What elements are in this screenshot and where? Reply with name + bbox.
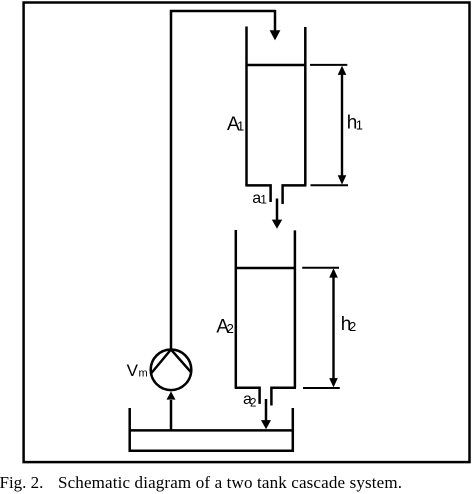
tank 1 water level line xyxy=(247,64,306,67)
arrowhead: a2 flow into reservoir xyxy=(261,420,271,429)
wire: inlet drop into tank 1 xyxy=(274,10,277,31)
svg-text:V: V xyxy=(127,361,139,380)
tank 1 bottom right with outlet stub xyxy=(283,185,307,204)
reservoir water level line xyxy=(130,429,293,432)
reservoir tank walls xyxy=(130,408,293,451)
svg-text:Fig. 2.: Fig. 2. xyxy=(0,473,43,492)
tank 2 left wall xyxy=(235,230,238,388)
svg-text:2: 2 xyxy=(250,397,256,409)
svg-text:Schematic diagram of a two tan: Schematic diagram of a two tank cascade … xyxy=(58,473,402,492)
tank 1 bottom left with outlet stub xyxy=(245,185,270,202)
svg-text:1: 1 xyxy=(237,119,244,134)
pump Vm circle xyxy=(151,350,192,391)
wire: outflow a2 into reservoir xyxy=(265,399,268,421)
arrowhead: inlet flow into tank 1 xyxy=(270,30,281,40)
arrowhead: suction flow into pump xyxy=(167,391,176,399)
h2 dimension double arrow xyxy=(332,275,334,381)
tank 1 left wall xyxy=(245,27,248,186)
tank 2 bottom right with outlet stub xyxy=(271,388,296,406)
tank 2 water level line xyxy=(236,267,295,270)
h2 dimension top tick xyxy=(302,267,339,269)
wire: reservoir to pump suction xyxy=(170,400,173,430)
svg-text:2: 2 xyxy=(349,319,356,334)
pump Vm impeller chords xyxy=(151,350,191,374)
tank 1 right wall xyxy=(304,27,307,185)
tank 2 right wall xyxy=(294,230,297,387)
h1 dimension double arrow xyxy=(341,72,343,178)
tank 2 bottom left with outlet stub xyxy=(235,388,260,404)
arrowhead: a1 flow into tank 2 xyxy=(272,220,282,229)
wire: outflow a1 into tank 2 xyxy=(276,199,279,221)
svg-text:1: 1 xyxy=(260,192,267,206)
h1 dimension top tick xyxy=(310,64,347,66)
svg-text:2: 2 xyxy=(227,321,234,336)
wire: pump supply pipe (left vertical + top horizontal) xyxy=(171,11,275,350)
h2 dimension bottom tick xyxy=(303,387,340,389)
svg-text:1: 1 xyxy=(356,118,363,133)
h1 dimension bottom tick xyxy=(311,184,349,186)
svg-text:m: m xyxy=(139,368,148,380)
